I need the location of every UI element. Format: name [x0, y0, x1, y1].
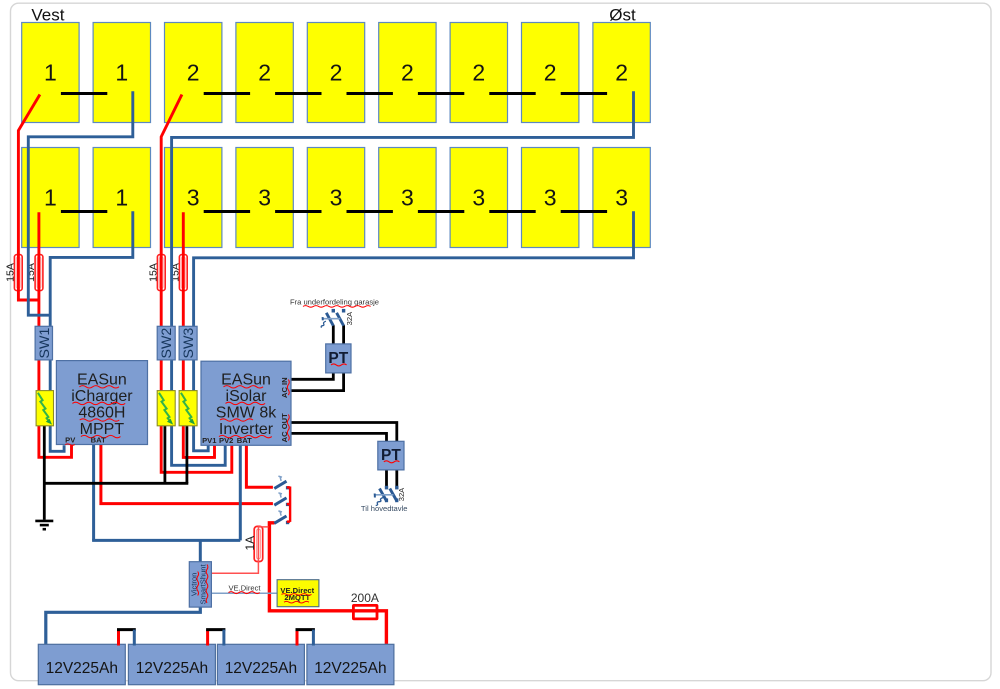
- svg-text:200A: 200A: [351, 591, 379, 605]
- fuse F6 label 200A: [351, 591, 379, 605]
- series link row2 panel1-panel2: [61, 210, 107, 213]
- svg-text:2: 2: [544, 60, 557, 86]
- series link row2 panel4-panel5: [275, 210, 321, 213]
- svg-text:3: 3: [330, 185, 343, 211]
- svg-text:2: 2: [472, 60, 485, 86]
- wire AC OUT N (black) inverter to PT2: [291, 433, 387, 441]
- solar panel row1 #6 (string 2): [379, 23, 436, 123]
- battery bridge B3-B4: [296, 630, 315, 646]
- disconnect switch S3 (battery main): [274, 511, 289, 524]
- svg-text:12V225Ah: 12V225Ah: [314, 660, 386, 677]
- svg-text:PV: PV: [65, 435, 76, 444]
- svg-text:3: 3: [472, 185, 485, 211]
- U1 title text: [71, 371, 133, 438]
- svg-text:2: 2: [258, 60, 271, 86]
- surge protector SPD3 (yellow box with lightning arrow): [179, 391, 197, 426]
- CB1 label 32A: [345, 311, 354, 325]
- svg-text:BAT: BAT: [91, 435, 106, 444]
- surge protector SPD2 (yellow box with lightning arrow): [157, 391, 175, 426]
- solar panel row2 #2 (string 1): [93, 148, 150, 248]
- svg-text:SW2: SW2: [159, 328, 175, 359]
- label Ost: [609, 6, 636, 25]
- solar panel row2 #3 (string 3): [165, 148, 222, 248]
- svg-text:VE.Direct: VE.Direct: [228, 583, 261, 592]
- wire battery main positive (red) switch S3 to 200A fuse to battery4: [269, 523, 386, 646]
- U2 terminal label PV1: [202, 436, 217, 445]
- solar panel row2 #6 (string 3): [379, 148, 436, 248]
- label Vest: [31, 6, 64, 25]
- battery B3 12V225Ah: [217, 644, 304, 684]
- wire negative bus (blue): [92, 539, 240, 542]
- U2 title text: [216, 371, 277, 438]
- series link row2 panel3-panel4: [204, 210, 250, 213]
- wire SPD3 earth (black): [185, 425, 188, 483]
- U1 title spellcheck squiggles: [72, 386, 125, 438]
- wire SmartShunt to battery1 negative (blue): [46, 607, 201, 646]
- svg-text:12V225Ah: 12V225Ah: [46, 660, 118, 677]
- svg-text:1: 1: [44, 185, 57, 211]
- svg-text:12V225Ah: 12V225Ah: [225, 660, 297, 677]
- solar panel row2 #4 (string 3): [236, 148, 293, 248]
- svg-text:15A: 15A: [147, 263, 159, 282]
- svg-text:2: 2: [330, 60, 343, 86]
- wire PT2 to breaker CB2 pole a (black): [385, 470, 388, 488]
- wire SPD1 earth (black): [43, 425, 46, 520]
- fuse F2 label 15A: [25, 263, 37, 282]
- svg-text:2: 2: [615, 60, 628, 86]
- svg-text:PV2: PV2: [219, 436, 233, 445]
- svg-text:3: 3: [544, 185, 557, 211]
- U2 terminal label AC IN: [280, 377, 289, 398]
- solar panel row2 #7 (string 3): [450, 148, 507, 248]
- svg-text:BAT: BAT: [237, 436, 252, 445]
- svg-text:Øst: Øst: [609, 6, 636, 25]
- solar panel row2 #1 (string 1): [22, 148, 79, 248]
- transfer box PT1: [326, 344, 351, 373]
- series link row1 panel6-panel7: [418, 92, 464, 95]
- label Til hovedtavle: [361, 504, 408, 513]
- U1 terminal label BAT: [91, 435, 106, 444]
- solar panel row1 #7 (string 2): [450, 23, 507, 123]
- battery bridge B2-B3: [206, 630, 225, 646]
- shunt U3 Victron SmartShunt box: [189, 562, 211, 607]
- svg-text:3: 3: [187, 185, 200, 211]
- svg-text:1: 1: [115, 60, 128, 86]
- svg-text:1A: 1A: [243, 536, 257, 551]
- wire string1-row1 negative (blue) panel2 to junction: [28, 91, 133, 315]
- surge protector SPD1 (yellow box with lightning arrow): [36, 391, 53, 426]
- svg-text:SmartShunt: SmartShunt: [198, 563, 207, 604]
- wire string1-row2 negative (blue) panel2 through SW1 to MPPT PV-: [50, 211, 133, 451]
- svg-text:3: 3: [615, 185, 628, 211]
- wire PT1 to breaker CB1 pole b (black): [342, 325, 345, 344]
- gateway U4 VE.Direct 2MQTT box: [277, 580, 319, 607]
- svg-text:15A: 15A: [4, 263, 16, 282]
- wire PT2 to breaker CB2 pole b (black): [395, 470, 398, 488]
- battery B1 12V225Ah: [38, 644, 125, 684]
- wire MPPT BAT+ (red) to disconnect switch S2: [101, 445, 273, 504]
- wire string3 positive (red) row2 panel3 through F4 and SW3 to inverter PV1+: [183, 212, 214, 457]
- svg-text:32A: 32A: [397, 487, 406, 501]
- label Fra underfordeling garasje: [290, 297, 379, 307]
- battery bridge B1-B2: [117, 630, 136, 646]
- fuse F4 15A body: [179, 255, 187, 291]
- svg-text:32A: 32A: [345, 311, 354, 325]
- series link row1 panel1-panel2: [61, 92, 107, 95]
- fuse F4 label 15A: [169, 263, 181, 282]
- solar panel row2 #5 (string 3): [307, 148, 364, 248]
- solar panel row2 #8 (string 3): [522, 148, 579, 248]
- svg-text:iSolar: iSolar: [226, 388, 268, 405]
- battery B4 12V225Ah: [307, 644, 394, 684]
- fuse F3 label 15A: [147, 263, 159, 282]
- U1 terminal label PV: [65, 435, 76, 445]
- wire string2 negative (blue) row1 panel9 through SW2 to inverter PV2-: [172, 91, 634, 465]
- wire AC OUT L (black) inverter to PT2: [291, 423, 397, 442]
- svg-text:AC OUT: AC OUT: [280, 413, 289, 442]
- svg-text:Vest: Vest: [31, 6, 64, 25]
- svg-text:2: 2: [401, 60, 414, 86]
- series link row1 panel5-panel6: [347, 92, 393, 95]
- solar panel row2 #9 (string 3): [593, 148, 650, 248]
- PV switch box SW3: [179, 326, 197, 360]
- solar panel row1 #2 (string 1): [93, 23, 150, 123]
- fuse F1 15A body: [14, 255, 22, 291]
- wire earth bus (black): [43, 482, 188, 485]
- svg-text:SW3: SW3: [181, 328, 197, 359]
- fuse F5 label 1A: [243, 536, 257, 551]
- series link row2 panel5-panel6: [347, 210, 393, 213]
- series link row2 panel6-panel7: [418, 210, 464, 213]
- battery B2 12V225Ah: [128, 644, 215, 684]
- solar panel row1 #1 (string 1): [22, 23, 79, 123]
- svg-text:12V225Ah: 12V225Ah: [136, 660, 208, 677]
- wire shunt voltage sense (thin red) via 1A fuse: [212, 527, 269, 573]
- disconnect switch S1 (inverter battery): [274, 476, 289, 489]
- fuse F6 200A body: [353, 605, 377, 619]
- wire MPPT BAT- (blue): [92, 445, 95, 541]
- U2 title spellcheck squiggles: [219, 386, 272, 438]
- wire string3 negative (blue) row2 panel9 through SW3 to inverter PV1-: [194, 211, 634, 450]
- svg-text:Fra underfordeling garasje: Fra underfordeling garasje: [290, 297, 379, 306]
- PV switch box SW1: [35, 326, 53, 360]
- wire SPD2 earth (black): [163, 425, 166, 483]
- disconnect switch S2 (MPPT battery): [274, 493, 289, 506]
- PV switch box SW2: [157, 326, 175, 360]
- series link row1 panel3-panel4: [204, 92, 250, 95]
- solar panel row1 #4 (string 2): [236, 23, 293, 123]
- U2 terminal label PV2: [219, 436, 233, 445]
- wire switch output bus (red): [287, 487, 290, 522]
- wire inverter BAT- (blue): [239, 445, 242, 540]
- svg-text:3: 3: [401, 185, 414, 211]
- svg-text:Til hovedtavle: Til hovedtavle: [361, 504, 408, 513]
- solar panel row1 #8 (string 2): [522, 23, 579, 123]
- wire inverter BAT+ (red) to disconnect switch S1: [246, 445, 273, 487]
- svg-text:Victron: Victron: [189, 573, 198, 597]
- svg-text:1: 1: [115, 185, 128, 211]
- solar panel row1 #9 (string 2): [593, 23, 650, 123]
- circuit breaker CB2 32A (2-pole, to main board): [375, 486, 399, 506]
- svg-text:PV1: PV1: [202, 436, 217, 445]
- transfer box PT2: [378, 441, 404, 470]
- CB2 label 32A: [397, 487, 406, 501]
- wire AC IN L (black) inverter to PT1: [291, 373, 333, 380]
- fuse F5 1A body: [254, 526, 263, 561]
- U2 terminal label BAT: [237, 436, 252, 445]
- series link row1 panel4-panel5: [275, 92, 321, 95]
- series link row2 panel7-panel8: [489, 210, 535, 213]
- solar panel row1 #3 (string 2): [165, 23, 222, 123]
- wire AC IN N (black) inverter to PT1: [291, 373, 344, 391]
- series link row1 panel7-panel8: [489, 92, 535, 95]
- wire PT1 to breaker CB1 pole a (black): [332, 325, 335, 344]
- svg-text:2: 2: [187, 60, 200, 86]
- MPPT charger U1 EASun iCharger 4860H box: [56, 361, 147, 445]
- wire string2 positive (red) row1 panel3 through F3 and SW2 to inverter PV2+: [161, 95, 232, 473]
- series link row2 panel8-panel9: [561, 210, 607, 213]
- fuse F2 15A body: [35, 255, 43, 291]
- solar panel row1 #5 (string 2): [307, 23, 364, 123]
- fuse F3 15A body: [157, 255, 165, 291]
- wire negative bus to SmartShunt (blue): [199, 540, 202, 562]
- series link row1 panel8-panel9: [561, 92, 607, 95]
- svg-text:3: 3: [258, 185, 271, 211]
- U2 terminal label AC OUT: [280, 413, 289, 442]
- ground symbol: [35, 521, 53, 529]
- inverter U2 EASun iSolar SMW 8k box: [201, 361, 291, 445]
- svg-text:1: 1: [44, 60, 57, 86]
- svg-text:SW1: SW1: [37, 328, 53, 359]
- wire string1-row2 positive (red) panel1 through F2 and SW1 to MPPT PV+: [39, 212, 72, 457]
- fuse F1 label 15A: [4, 263, 16, 282]
- circuit breaker CB1 32A (2-pole, from garage sub-board): [321, 309, 345, 328]
- wire string1-row1 positive (red) panel1 to fuse F1 to junction: [18, 95, 40, 301]
- wire VE.Direct data link (thin blue): [212, 592, 278, 594]
- label VE.Direct on data link: [228, 583, 261, 593]
